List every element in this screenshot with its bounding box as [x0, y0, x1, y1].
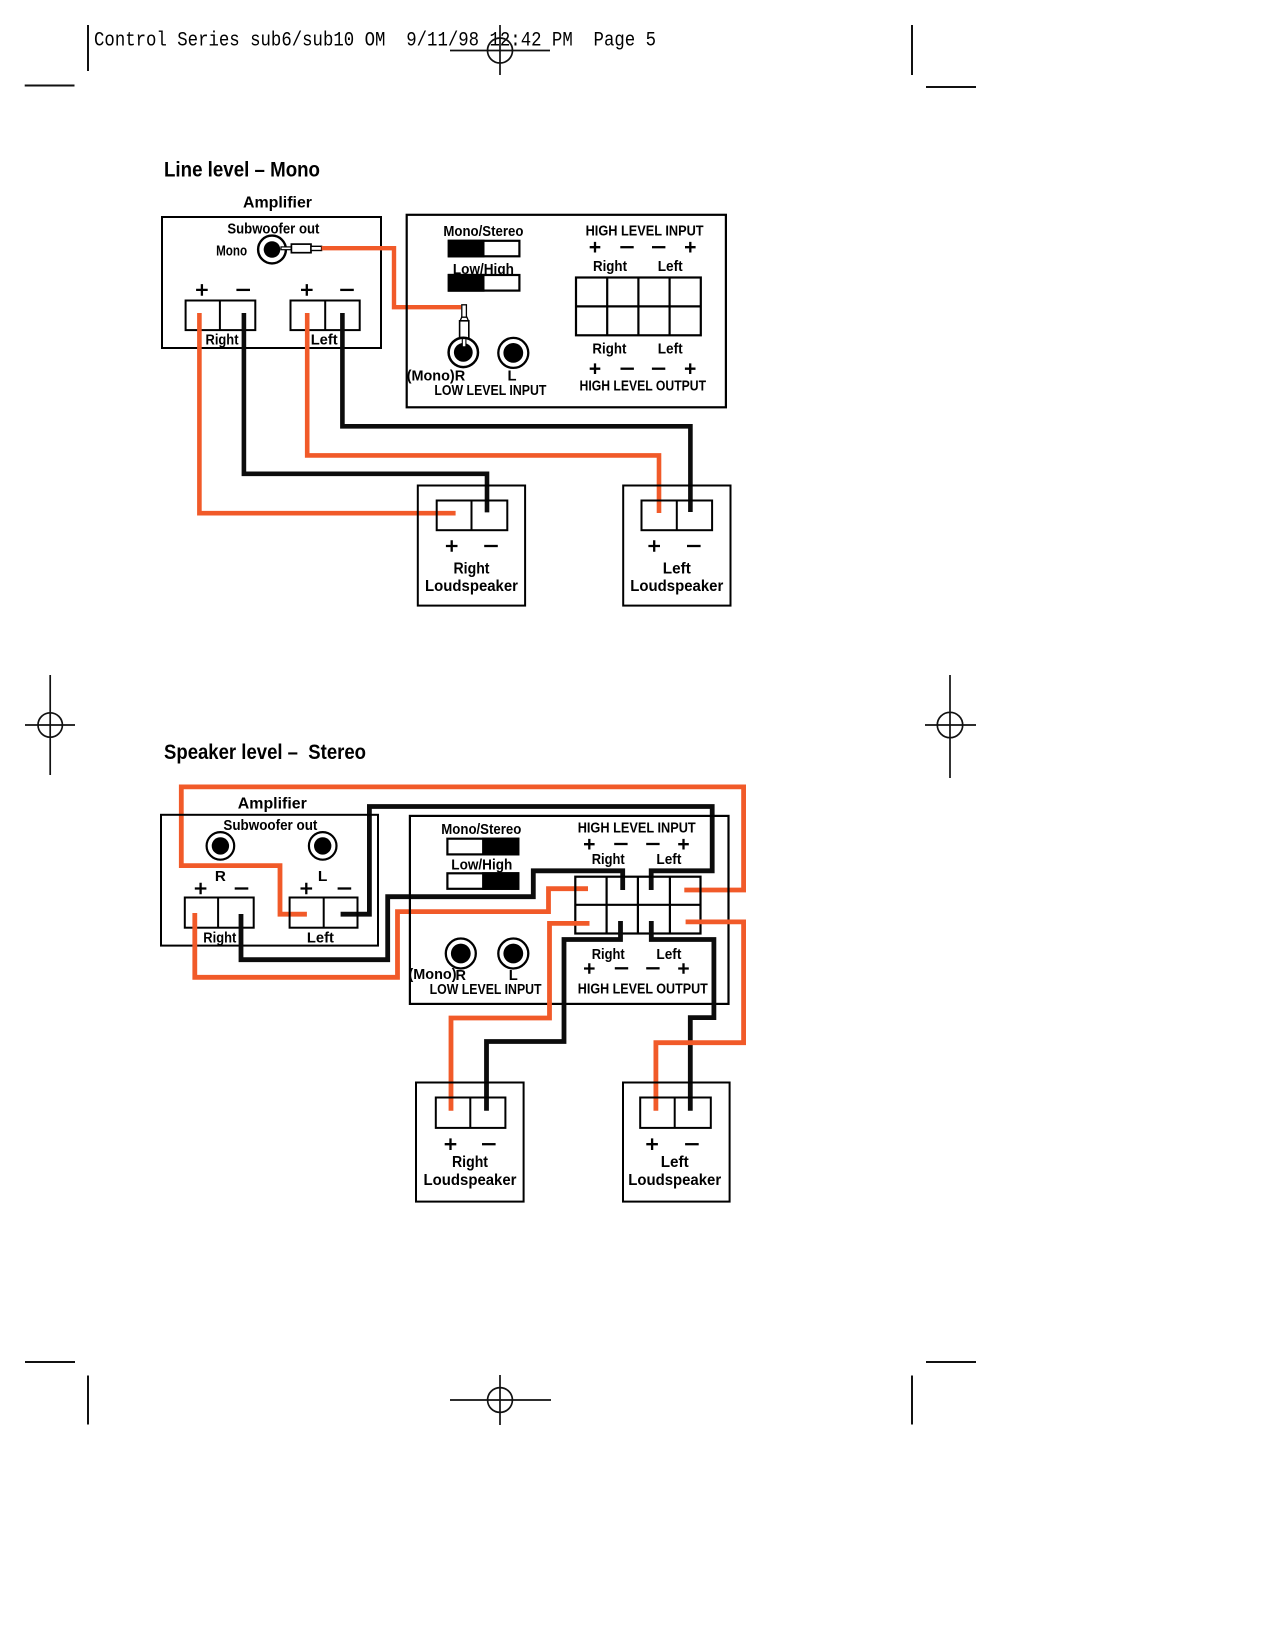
svg-text:Mono/Stereo: Mono/Stereo — [443, 224, 523, 240]
wire black amp right minus to right speaker D1 — [244, 313, 487, 512]
amplifier box D1 — [162, 217, 381, 348]
RCA jack L low level D2 — [498, 939, 528, 969]
right label amp D2 — [203, 930, 236, 947]
svg-text:Loudspeaker: Loudspeaker — [628, 1172, 721, 1189]
plus label amp left D1 — [301, 284, 313, 296]
mini plug into R low level input D1 — [460, 305, 469, 339]
registration mark top-center — [450, 25, 550, 75]
trim mark bottom-left vertical — [87, 1376, 89, 1425]
svg-text:Mono/Stereo: Mono/Stereo — [441, 822, 521, 838]
svg-text:Left: Left — [658, 259, 683, 275]
L label D2 — [318, 868, 328, 885]
plus label left speaker D1 — [648, 540, 660, 552]
high level output label D1 — [580, 378, 707, 394]
RCA jack R low level D2 — [446, 939, 476, 969]
low level input label D2 — [430, 982, 542, 998]
high level output label D2 — [578, 981, 708, 997]
trim mark top-left horizontal — [25, 85, 75, 87]
L label D1 — [508, 368, 517, 384]
low/high label D2 — [451, 858, 512, 874]
svg-text:HIGH LEVEL OUTPUT: HIGH LEVEL OUTPUT — [578, 981, 708, 997]
header slug text — [94, 30, 656, 53]
left loudspeaker box D1 — [623, 486, 730, 606]
mono/stereo label D1 — [443, 224, 523, 240]
svg-text:LOW LEVEL INPUT: LOW LEVEL INPUT — [430, 982, 542, 998]
amp terminal block left D2 — [290, 898, 358, 928]
svg-text:R: R — [455, 368, 466, 384]
svg-text:Right: Right — [452, 1154, 488, 1171]
low level input label D1 — [434, 383, 546, 399]
left loudspeaker terminals D1 — [642, 501, 713, 531]
minus label amp left D1 — [340, 289, 354, 291]
amplifier label D2 — [238, 796, 307, 813]
svg-text:Right: Right — [593, 259, 627, 275]
trim mark bottom-right vertical — [911, 1376, 913, 1425]
plus minus row output D2 — [584, 963, 689, 974]
amp terminal block left D1 — [291, 301, 360, 331]
svg-text:Left: Left — [311, 332, 338, 349]
trim mark top-right vertical — [911, 25, 913, 75]
svg-text:Right: Right — [592, 342, 626, 358]
svg-text:L: L — [508, 368, 517, 384]
subwoofer box D2 — [410, 816, 729, 1004]
left label amp D2 — [307, 930, 334, 947]
svg-text:Loudspeaker: Loudspeaker — [630, 578, 723, 595]
plus minus row input D2 — [584, 839, 689, 850]
high level terminal grid D2 — [575, 877, 700, 934]
minus label amp right D1 — [236, 289, 250, 291]
wire black high level output left minus to left speaker D2 — [651, 921, 714, 1111]
trim mark top-left vertical — [87, 25, 89, 71]
svg-text:Loudspeaker: Loudspeaker — [425, 578, 518, 595]
svg-text:(Mono): (Mono) — [407, 368, 455, 384]
right label input D2 — [592, 852, 625, 868]
svg-text:Left: Left — [661, 1154, 689, 1171]
left loudspeaker box D2 — [623, 1083, 730, 1202]
left label output D2 — [656, 947, 681, 963]
minus label left speaker D1 — [687, 545, 701, 547]
(Mono)R label D2 — [409, 967, 467, 984]
right loudspeaker label D1 — [425, 560, 518, 595]
high level input label D1 — [586, 223, 704, 239]
high level input label D2 — [578, 820, 696, 836]
svg-text:Left: Left — [658, 342, 683, 358]
trim mark bottom-left horizontal — [25, 1361, 75, 1363]
minus label right speaker D1 — [484, 545, 498, 547]
RCA jack subwoofer L D2 — [309, 832, 337, 860]
RCA jack R low level D1 — [449, 338, 478, 367]
svg-text:HIGH LEVEL INPUT: HIGH LEVEL INPUT — [578, 820, 696, 836]
plus label amp right D1 — [196, 284, 208, 296]
plus minus row input D1 — [590, 242, 696, 253]
svg-text:Left: Left — [656, 852, 681, 868]
svg-text:Left: Left — [307, 930, 334, 947]
amp terminal block right D2 — [185, 898, 254, 928]
mono/stereo switch D1 (mono) — [449, 241, 520, 256]
wire black amp right minus to high level input right minus D2 — [241, 871, 623, 960]
right label output D1 — [592, 342, 626, 358]
subwoofer box D1 — [407, 215, 726, 407]
mono label D1 — [216, 243, 247, 260]
left loudspeaker terminals D2 — [640, 1098, 711, 1128]
wire black high level output right minus to right speaker D2 — [487, 921, 621, 1111]
mono/stereo label D2 — [441, 822, 521, 838]
svg-text:(Mono): (Mono) — [409, 967, 457, 983]
R label D2 — [215, 868, 226, 885]
svg-text:Right: Right — [592, 947, 625, 963]
RCA jack subwoofer R D2 — [207, 832, 235, 860]
amplifier label D1 — [243, 195, 312, 212]
right label input D1 — [593, 259, 627, 275]
title Line level - Mono — [164, 159, 320, 182]
minus label amp left D2 — [338, 887, 352, 889]
svg-text:Left: Left — [656, 947, 681, 963]
wire orange amp left plus to high level input left plus D2 (top loop) — [181, 787, 743, 914]
trim mark top-right horizontal — [926, 86, 976, 88]
svg-text:Left: Left — [663, 560, 691, 577]
wire black amp left minus to left speaker D1 — [342, 313, 690, 512]
right label amp D1 — [206, 332, 239, 349]
svg-text:LOW LEVEL INPUT: LOW LEVEL INPUT — [434, 383, 546, 399]
svg-text:L: L — [318, 868, 328, 885]
trim mark bottom-right horizontal — [926, 1361, 976, 1363]
svg-text:Right: Right — [203, 930, 236, 947]
subwoofer out label D2 — [223, 817, 317, 834]
wire orange amp left plus to left speaker D1 — [307, 313, 659, 513]
right loudspeaker terminals D2 — [436, 1098, 506, 1128]
svg-text:Loudspeaker: Loudspeaker — [424, 1172, 517, 1189]
svg-text:Right: Right — [206, 332, 239, 349]
right loudspeaker box D1 — [418, 486, 525, 606]
left loudspeaker label D1 — [630, 560, 723, 595]
registration mark right-middle — [925, 675, 976, 778]
low/high label D1 — [453, 262, 514, 278]
plus minus row output D1 — [590, 363, 696, 374]
svg-text:Right: Right — [592, 852, 625, 868]
svg-text:Line level – Mono: Line level – Mono — [164, 159, 320, 182]
svg-text:Amplifier: Amplifier — [238, 796, 307, 813]
left label input D1 — [658, 259, 683, 275]
RCA plug into mono jack D1 — [281, 244, 322, 253]
plus label amp left D2 — [301, 883, 313, 895]
svg-text:R: R — [215, 868, 226, 885]
L label low level D2 — [509, 968, 518, 984]
minus label left speaker D2 — [685, 1143, 699, 1145]
(Mono) R label D1 — [407, 368, 466, 384]
wire orange mono line-level D1 — [322, 248, 461, 307]
RCA jack mono out D1 — [258, 236, 286, 264]
minus label right speaker D2 — [482, 1143, 496, 1145]
right label output D2 — [592, 947, 625, 963]
svg-text:Low/High: Low/High — [451, 858, 512, 874]
right loudspeaker label D2 — [424, 1154, 517, 1189]
svg-text:Speaker level – Stereo: Speaker level – Stereo — [164, 741, 366, 764]
left label input D2 — [656, 852, 681, 868]
wire orange amp right plus to right speaker D1 — [199, 313, 455, 513]
plus label right speaker D1 — [446, 540, 458, 552]
registration mark left-middle — [25, 675, 75, 775]
plus label left speaker D2 — [646, 1138, 658, 1150]
svg-text:Amplifier: Amplifier — [243, 195, 312, 212]
svg-text:HIGH LEVEL INPUT: HIGH LEVEL INPUT — [586, 223, 704, 239]
title Speaker level - Stereo — [164, 741, 366, 764]
wire black amp left minus to high level input left minus D2 — [341, 807, 713, 915]
svg-text:Mono: Mono — [216, 243, 247, 260]
left label output D1 — [658, 342, 683, 358]
subwoofer out label D1 — [227, 221, 319, 238]
amp terminal block right D1 — [186, 301, 256, 331]
plus label right speaker D2 — [445, 1138, 457, 1150]
left label amp D1 — [311, 332, 338, 349]
mono/stereo switch D2 (stereo) — [447, 839, 518, 855]
svg-text:HIGH LEVEL OUTPUT: HIGH LEVEL OUTPUT — [580, 378, 707, 394]
wire orange amp right plus to high level input right plus D2 — [195, 889, 588, 978]
low/high switch D1 (low) — [449, 275, 520, 291]
amplifier box D2 — [161, 815, 378, 946]
wire orange high level output left plus to left speaker D2 — [656, 922, 744, 1111]
plus label amp right D2 — [195, 883, 207, 895]
registration mark bottom-center — [450, 1375, 551, 1425]
right loudspeaker box D2 — [416, 1083, 524, 1202]
svg-text:Control Series sub6/sub10 OM: Control Series sub6/sub10 OM 9/11/98 12:… — [94, 30, 656, 53]
left loudspeaker label D2 — [628, 1154, 721, 1189]
high level terminal grid D1 — [576, 278, 701, 336]
minus label amp right D2 — [235, 887, 249, 889]
wire orange high level output right plus to right speaker D2 — [451, 923, 590, 1110]
RCA jack L low level D1 — [498, 338, 528, 368]
right loudspeaker terminals D1 — [437, 501, 508, 531]
svg-text:Subwoofer out: Subwoofer out — [223, 817, 317, 834]
svg-text:Right: Right — [454, 560, 490, 577]
low/high switch D2 (high) — [447, 873, 518, 889]
